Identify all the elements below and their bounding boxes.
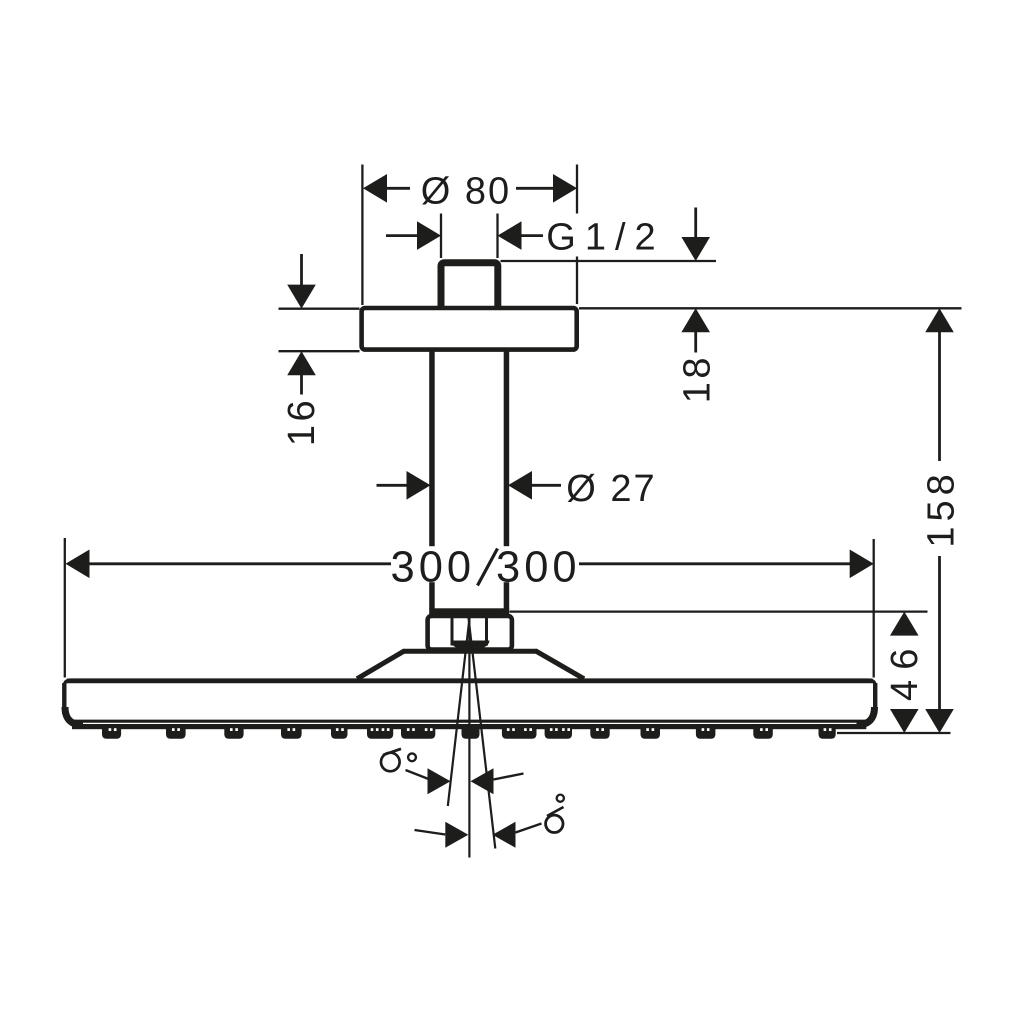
svg-text:158: 158	[920, 469, 962, 547]
svg-text:Ø 27: Ø 27	[566, 468, 656, 510]
svg-text:G1/2: G1/2	[546, 216, 664, 258]
svg-text:300: 300	[496, 543, 581, 591]
svg-text:18: 18	[676, 354, 718, 403]
svg-text:46: 46	[884, 639, 926, 701]
svg-text:Ø 80: Ø 80	[421, 170, 511, 212]
svg-text:16: 16	[281, 397, 323, 446]
svg-text:300: 300	[391, 543, 476, 591]
